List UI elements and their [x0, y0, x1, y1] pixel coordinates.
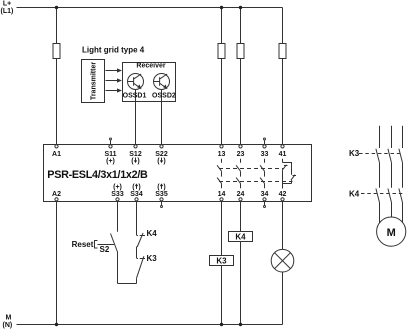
svg-text:(N): (N)	[3, 322, 13, 329]
svg-text:OSSD1: OSSD1	[123, 92, 147, 99]
svg-text:(L1): (L1)	[1, 8, 14, 15]
svg-text:K4: K4	[235, 232, 246, 241]
svg-text:S35: S35	[155, 191, 168, 198]
svg-text:Reset: Reset	[72, 240, 94, 249]
svg-text:OSSD2: OSSD2	[152, 92, 176, 99]
svg-text:S2: S2	[100, 245, 110, 254]
svg-text:33: 33	[261, 151, 269, 158]
svg-text:K4: K4	[147, 229, 158, 238]
svg-text:L+: L+	[3, 0, 11, 7]
svg-text:A1: A1	[52, 151, 61, 158]
svg-text:K3: K3	[147, 254, 158, 263]
svg-text:A2: A2	[52, 191, 61, 198]
svg-text:23: 23	[237, 151, 245, 158]
svg-text:): )	[163, 158, 165, 165]
svg-text:41: 41	[279, 151, 287, 158]
svg-text:K4: K4	[349, 189, 360, 198]
svg-text:K3: K3	[216, 257, 227, 266]
svg-text:Light grid type 4: Light grid type 4	[82, 45, 145, 54]
svg-text:M: M	[387, 227, 396, 239]
svg-text:Receiver: Receiver	[136, 63, 165, 70]
svg-text:M: M	[6, 315, 12, 322]
svg-text:Transmitter: Transmitter	[91, 62, 98, 100]
svg-text:): )	[163, 184, 165, 191]
svg-text:14: 14	[218, 191, 226, 198]
svg-text:34: 34	[261, 191, 269, 198]
svg-text:(+): (+)	[113, 184, 122, 191]
svg-text:S33: S33	[111, 191, 124, 198]
svg-text:): )	[138, 184, 140, 191]
svg-text:PSR-ESL4/3x1/1x2/B: PSR-ESL4/3x1/1x2/B	[47, 169, 148, 181]
svg-text:): )	[137, 158, 139, 165]
svg-text:(+): (+)	[106, 158, 115, 165]
svg-text:S34: S34	[130, 191, 143, 198]
svg-text:42: 42	[279, 191, 287, 198]
svg-text:13: 13	[218, 151, 226, 158]
svg-text:24: 24	[237, 191, 245, 198]
svg-text:K3: K3	[349, 149, 360, 158]
